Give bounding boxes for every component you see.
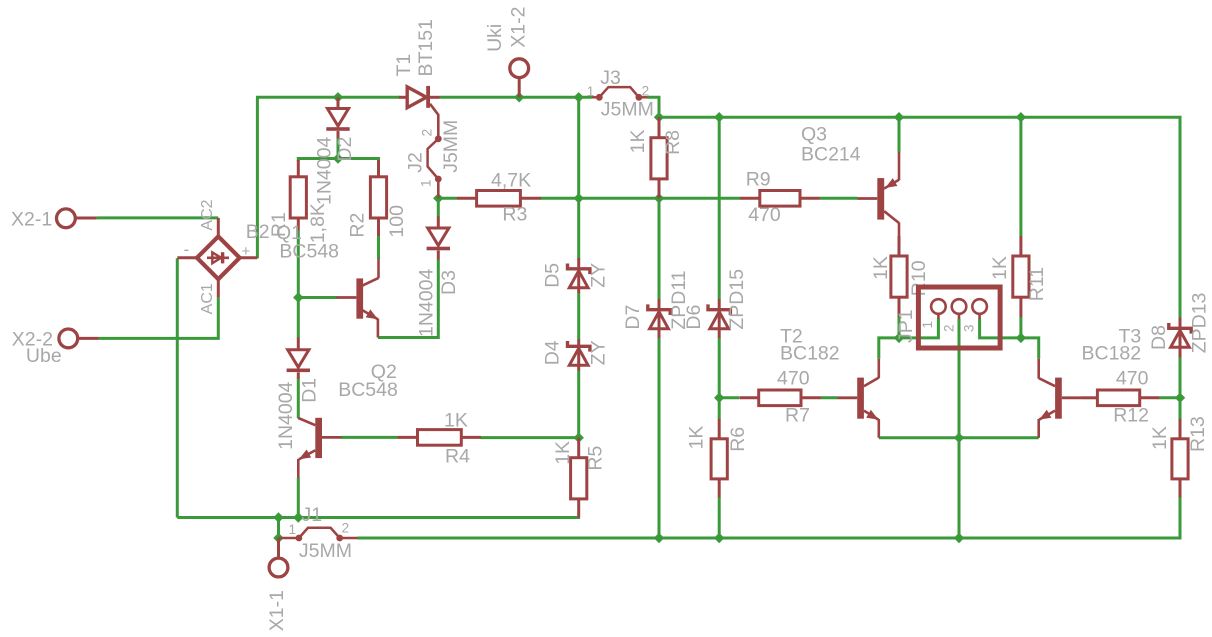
svg-text:R5: R5 <box>584 446 606 471</box>
connector JP1 <box>918 287 1000 348</box>
wire R11 bottom to node <box>1019 317 1022 338</box>
svg-text:1K: 1K <box>627 130 649 154</box>
wire vertical net at x579 lower <box>577 370 580 438</box>
svg-text:ZY: ZY <box>587 263 609 288</box>
zener diode D7 <box>658 299 661 338</box>
junction <box>654 112 664 122</box>
transistor Q3 BC214 pnp <box>898 152 901 180</box>
wire R4 to R5 node <box>480 436 578 439</box>
resistor R4 <box>398 436 418 439</box>
svg-text:BC548: BC548 <box>338 379 398 401</box>
wire R1 bottom to Q1 base node <box>297 230 300 298</box>
svg-text:D2: D2 <box>334 137 356 162</box>
diode D3 <box>437 217 440 229</box>
svg-text:BC182: BC182 <box>1082 343 1142 365</box>
junction <box>433 193 443 203</box>
svg-text:B2: B2 <box>246 221 270 243</box>
svg-text:2: 2 <box>342 521 350 536</box>
svg-text:1: 1 <box>920 321 935 329</box>
wire R2 bottom to Q1 collector <box>377 236 380 259</box>
svg-text:1,8K: 1,8K <box>307 203 329 243</box>
jumper J1 <box>279 537 299 540</box>
terminal X2-1 <box>57 209 76 228</box>
wire bottom rail <box>357 497 1180 538</box>
resistor R9 <box>740 197 760 200</box>
junction <box>333 92 343 102</box>
svg-text:2: 2 <box>642 83 650 98</box>
svg-text:J1: J1 <box>302 504 323 526</box>
junction <box>954 433 964 443</box>
wire D7 anode down to bottom rail <box>658 338 661 539</box>
wire bottom-left rail <box>177 516 580 519</box>
svg-text:ZPD15: ZPD15 <box>726 269 748 330</box>
transistor Q2 BC548 mirrored <box>298 418 315 425</box>
svg-text:2: 2 <box>941 324 956 332</box>
wire second rail down to D6 <box>718 117 721 299</box>
wire row above R1 R2 <box>298 159 378 162</box>
junction <box>894 333 904 343</box>
junction <box>293 512 303 522</box>
resistor R3 <box>457 197 477 200</box>
svg-text:X2-1: X2-1 <box>11 208 52 230</box>
svg-text:1: 1 <box>419 179 434 187</box>
svg-text:Q3: Q3 <box>801 124 827 146</box>
thyristor T1 <box>399 96 408 99</box>
svg-text:J5MM: J5MM <box>299 540 352 562</box>
svg-text:R12: R12 <box>1113 405 1149 427</box>
transistor T3 BC182 mirrored <box>1037 359 1040 379</box>
resistor R10 <box>898 236 901 256</box>
resistor R1 <box>290 177 306 218</box>
wire bridge minus down left rail <box>176 258 179 517</box>
svg-text:BC182: BC182 <box>780 343 840 365</box>
wire R12 to D8 node <box>1159 396 1180 399</box>
svg-text:-: - <box>184 240 190 259</box>
svg-text:1K: 1K <box>444 409 468 431</box>
resistor R7 <box>739 396 758 399</box>
terminal X1-2 Uki <box>510 59 529 78</box>
svg-text:D1: D1 <box>299 378 321 403</box>
svg-text:J5MM: J5MM <box>601 99 654 121</box>
junction <box>1016 333 1026 343</box>
wire vertical net at x579 upper <box>577 97 580 259</box>
junction <box>714 112 724 122</box>
wire X2-2 to bridge AC1 <box>99 298 218 339</box>
svg-text:1K: 1K <box>870 256 892 280</box>
wire R6 bottom to bottom rail <box>718 497 721 538</box>
zener diode D6 <box>718 299 721 338</box>
wire top rail right corner to second rail <box>648 97 660 117</box>
svg-text:R9: R9 <box>746 169 771 191</box>
wire D3 cathode to Q1 emitter <box>378 259 438 338</box>
wire D3 node down from R3 junction <box>437 198 440 217</box>
junction <box>894 112 904 122</box>
svg-text:D3: D3 <box>438 270 460 295</box>
wire R11 node corner to T3 collector <box>1021 338 1039 359</box>
svg-text:+: + <box>242 243 251 260</box>
wire JP1 pin2 down to bottom rail <box>958 319 961 539</box>
svg-text:R2: R2 <box>347 213 369 238</box>
junction <box>1016 112 1026 122</box>
svg-text:1N4004: 1N4004 <box>314 137 336 205</box>
zener diode D4 <box>577 340 580 371</box>
wire R6 node to R7 <box>719 396 739 399</box>
svg-text:1K: 1K <box>1149 426 1171 450</box>
wire T2 collector corner to JP1 pin1 node <box>879 319 939 359</box>
wire node down to D1 <box>297 298 300 339</box>
terminal X1-1 <box>277 538 280 559</box>
wire bridge plus up to top rail <box>256 97 259 258</box>
resistor R11 <box>1019 236 1022 256</box>
svg-text:Uki: Uki <box>484 24 506 52</box>
junction <box>714 393 724 403</box>
junction <box>573 432 583 442</box>
junction <box>654 193 664 203</box>
svg-text:T1: T1 <box>393 54 415 77</box>
svg-text:100: 100 <box>386 205 408 238</box>
svg-text:R3: R3 <box>502 204 527 226</box>
svg-text:1K: 1K <box>686 426 708 450</box>
wire node row R3-R9 <box>438 197 457 200</box>
svg-text:D7: D7 <box>622 305 644 330</box>
jumper J3 <box>592 96 599 99</box>
svg-text:JP1: JP1 <box>895 309 917 343</box>
junction <box>273 512 283 522</box>
svg-text:BT151: BT151 <box>415 19 437 76</box>
svg-text:R8: R8 <box>662 130 684 155</box>
svg-text:J5MM: J5MM <box>440 120 462 173</box>
svg-text:1: 1 <box>587 84 595 99</box>
resistor R6 <box>718 419 721 439</box>
resistor R12 <box>1082 396 1098 399</box>
svg-text:X1-2: X1-2 <box>508 6 530 47</box>
wire rail down to R11 <box>1019 117 1022 236</box>
diode D2 <box>337 97 340 108</box>
svg-text:X1-1: X1-1 <box>266 590 288 631</box>
wire junction drop to J1 node <box>277 518 280 539</box>
transistor Q1 BC548 <box>377 237 380 259</box>
svg-text:D8: D8 <box>1148 325 1170 350</box>
resistor R13 <box>1179 419 1182 439</box>
wire D2 cathode down to R1 R2 row <box>337 138 340 159</box>
junction <box>273 533 283 543</box>
resistor R8 <box>658 117 661 138</box>
wire top rail middle segment <box>440 96 593 99</box>
svg-text:R6: R6 <box>727 427 749 452</box>
svg-text:2: 2 <box>420 129 435 137</box>
svg-text:AC1: AC1 <box>199 283 216 314</box>
svg-text:ZPD13: ZPD13 <box>1189 293 1211 354</box>
svg-text:1: 1 <box>289 522 297 537</box>
transistor T2 BC182 <box>877 359 880 378</box>
wire JP1 pin3 to R11 node <box>980 319 1021 338</box>
svg-text:J3: J3 <box>600 67 621 89</box>
svg-text:R7: R7 <box>785 405 810 427</box>
svg-text:470: 470 <box>777 368 810 390</box>
junction <box>514 92 524 102</box>
junction <box>654 533 664 543</box>
svg-text:Ube: Ube <box>26 345 62 367</box>
junction <box>1175 393 1185 403</box>
bridge rectifier B2 <box>197 236 240 279</box>
svg-text:1K: 1K <box>989 256 1011 280</box>
wire R10 bottom to JP1 node row <box>898 317 901 338</box>
zener diode D8 <box>1179 318 1182 358</box>
junction <box>573 193 583 203</box>
wire vertical net at x579 between D5 D4 <box>577 293 580 341</box>
resistor R5 <box>577 438 580 458</box>
junction <box>573 92 583 102</box>
wire D8 anode to R12 node to R13 <box>1179 357 1182 419</box>
wire rail down to Q3 emitter <box>898 117 901 152</box>
junction <box>333 153 343 163</box>
wire second rail to right edge and down <box>659 117 1180 318</box>
wire Q1 base node to base pin <box>298 296 337 299</box>
svg-text:BC214: BC214 <box>801 144 861 166</box>
terminal X2-2 <box>59 329 78 348</box>
svg-text:1K: 1K <box>552 441 574 465</box>
svg-text:R4: R4 <box>445 446 470 468</box>
wire D1 cathode to Q2 collector <box>297 378 300 419</box>
jumper J2 <box>435 135 442 142</box>
svg-text:1N4004: 1N4004 <box>415 269 437 337</box>
wire Q2 base to R4 <box>341 436 398 439</box>
svg-text:D4: D4 <box>541 340 563 365</box>
svg-text:D5: D5 <box>541 263 563 288</box>
svg-text:470: 470 <box>748 204 781 226</box>
svg-text:AC2: AC2 <box>199 199 216 230</box>
resistor R2 <box>370 177 386 218</box>
svg-text:J2: J2 <box>405 152 427 173</box>
wire R7 to T2 base <box>821 396 838 399</box>
zener diode D5 <box>577 258 580 293</box>
svg-text:BC548: BC548 <box>279 241 339 263</box>
svg-text:ZY: ZY <box>587 340 609 365</box>
svg-text:R13: R13 <box>1187 416 1209 452</box>
wire X2-1 to bridge AC2 <box>97 216 219 219</box>
wire R8 node down to D7 <box>658 198 661 299</box>
junction <box>293 292 303 302</box>
svg-text:3: 3 <box>961 324 976 332</box>
wire D6 anode down to R6 <box>718 338 721 420</box>
junction <box>714 533 724 543</box>
svg-text:1N4004: 1N4004 <box>275 381 297 449</box>
wire top rail left segment <box>256 96 400 99</box>
svg-text:4,7K: 4,7K <box>491 169 531 191</box>
svg-text:D6: D6 <box>683 305 705 330</box>
svg-text:R11: R11 <box>1026 267 1048 301</box>
junction <box>954 533 964 543</box>
wire Q2 emitter down to rail <box>297 478 300 518</box>
wire T2 T3 emitter row <box>879 436 1039 439</box>
svg-text:470: 470 <box>1116 368 1149 390</box>
diode D1 <box>297 338 300 350</box>
